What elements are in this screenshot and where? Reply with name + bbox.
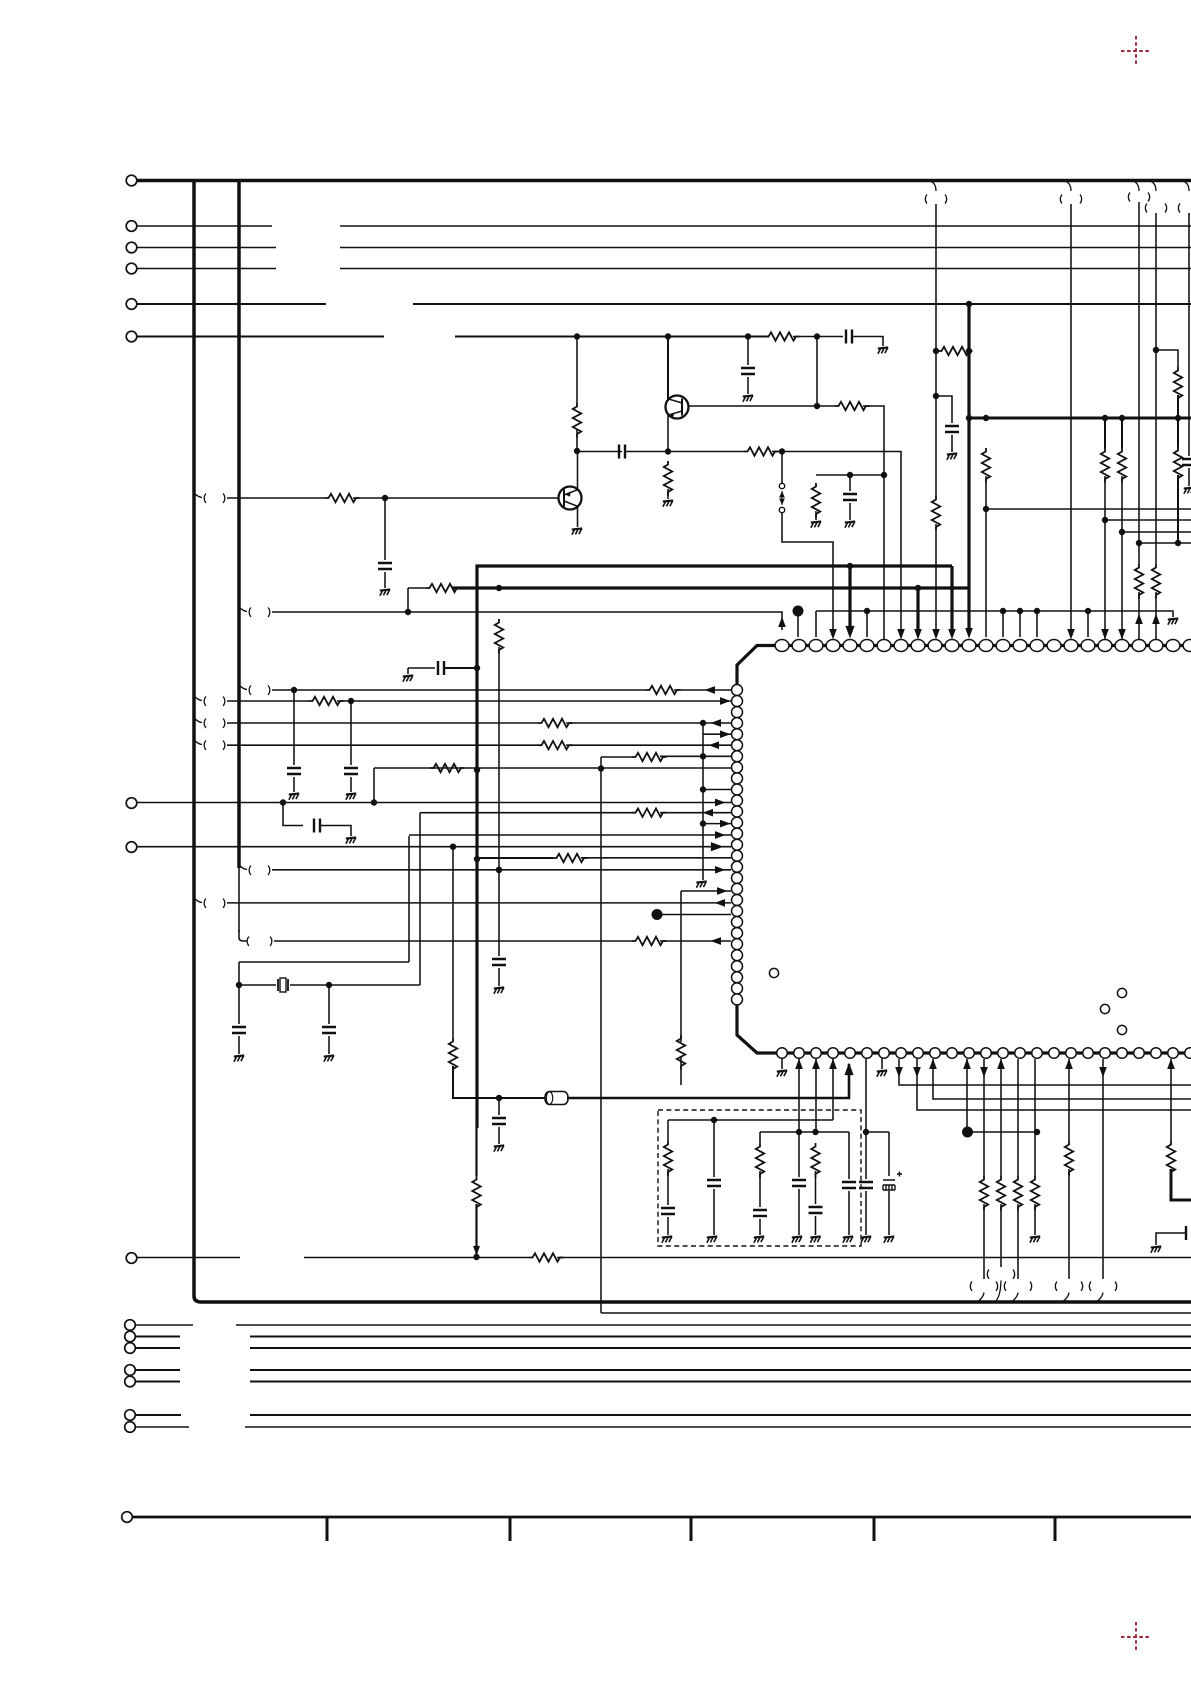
node box b2	[796, 1129, 801, 1134]
resistor R7	[664, 461, 672, 496]
connector P1	[779, 483, 785, 512]
wire b24 thick	[1171, 1169, 1191, 1200]
resistor R4	[812, 483, 820, 518]
arrow pin b24	[1168, 1060, 1174, 1069]
resistor R30	[472, 1176, 480, 1211]
wire X1 drop b	[935, 351, 937, 396]
wire bus 2 right	[340, 225, 1191, 227]
wire X1 drop a	[935, 204, 937, 351]
wire L2 b	[337, 700, 731, 702]
arrow pin20 in	[1102, 630, 1108, 639]
pad T4	[1117, 1025, 1126, 1034]
wire xtal b	[290, 984, 420, 986]
IC U1 bottom pin row	[777, 1048, 1191, 1059]
node b16 join	[1034, 1129, 1039, 1134]
node L8 rail	[598, 766, 603, 771]
ground C25	[1151, 1246, 1161, 1252]
ferrite bead FB1	[545, 1092, 568, 1105]
wire C25 link	[1156, 1226, 1186, 1245]
crystal X1	[278, 978, 288, 992]
node rail2 pin9	[915, 585, 920, 590]
wire net1258 c	[557, 1257, 1191, 1259]
terminal J9	[126, 1253, 137, 1264]
wire C4 drop	[849, 475, 851, 491]
wire L23 a	[274, 940, 632, 942]
resistor R23	[632, 753, 667, 761]
wire C2 drop	[747, 337, 749, 366]
connector hook net OSC	[239, 607, 270, 617]
ground C12	[346, 793, 356, 799]
wire rail V2 left stub	[408, 588, 426, 611]
capacitor C8	[438, 661, 444, 675]
wire b18 down	[1068, 1169, 1070, 1279]
wire X1 drop d	[935, 524, 937, 630]
node L11 b	[371, 800, 376, 805]
wire riser453	[452, 847, 454, 1038]
wire R17-R18	[1177, 395, 1179, 447]
resistor R17	[1174, 367, 1182, 402]
wire L13	[703, 823, 731, 825]
wire pin b4	[832, 1059, 834, 1120]
node A	[574, 448, 579, 453]
wire L17	[272, 869, 731, 871]
ground R4	[811, 521, 821, 527]
arrow pin1 out	[779, 618, 785, 627]
arrow pin b8	[896, 1068, 902, 1077]
connector hook net RXIN	[194, 493, 225, 503]
connector hook B5	[1089, 1282, 1116, 1302]
resistor R14	[1118, 448, 1126, 483]
resistor R1	[573, 403, 581, 438]
arrow pin L13	[721, 821, 730, 827]
wire gnd column	[702, 734, 704, 880]
wire L19	[681, 890, 731, 892]
capacitor C22	[842, 1182, 856, 1188]
connector page X1	[925, 181, 946, 204]
wire RXIN b	[353, 497, 559, 499]
arrow pin L6	[710, 742, 719, 748]
wire supply drop	[967, 304, 970, 628]
wire L1 cap drop	[293, 690, 295, 765]
wire baseline	[133, 1516, 1191, 1519]
capacitor C14	[232, 1027, 246, 1033]
wire C12 gnd	[350, 777, 352, 792]
node xtal right	[326, 982, 331, 987]
ground C14	[234, 1055, 244, 1061]
node row611 p6	[864, 608, 869, 613]
terminal K3	[125, 1343, 136, 1354]
wire base row	[817, 405, 835, 407]
arrow pin11 in	[949, 630, 955, 639]
capacitor C18	[809, 1207, 823, 1213]
wire pin b18	[1068, 1059, 1070, 1141]
wire row452 d	[772, 451, 782, 453]
wire b3 r-c	[815, 1171, 817, 1204]
resistor R3	[835, 402, 870, 410]
transistor Q1	[666, 396, 689, 419]
ground C3	[878, 347, 888, 353]
capacitor C24 electrolytic	[883, 1172, 902, 1191]
resistor R31	[811, 1143, 819, 1178]
resistor R26	[553, 854, 588, 862]
wire C9 link	[936, 396, 952, 423]
ground pin b7	[877, 1070, 887, 1076]
wire R1 to node	[576, 430, 578, 451]
arrow pin21 in	[1119, 630, 1125, 639]
node box b3	[813, 1129, 818, 1134]
arrow pin5 bottom	[845, 1064, 853, 1075]
wire L2 a	[227, 700, 309, 702]
capacitor C25 plate	[1185, 1226, 1187, 1240]
wire pin b7 stub	[881, 1058, 883, 1069]
wire pin b6	[865, 1059, 867, 1179]
wire pin11 thick drop	[950, 566, 953, 630]
wire busL2 a	[136, 1336, 180, 1338]
connector page X2	[1060, 181, 1081, 204]
ground C13	[346, 837, 356, 843]
wire C16 drop	[498, 1098, 500, 1115]
wire C16 gnd	[498, 1127, 500, 1144]
wire C7 gnd	[498, 968, 500, 986]
arrow pin8 in	[898, 630, 904, 639]
wire bus 6 left	[137, 336, 384, 338]
resistor R28	[632, 937, 667, 945]
node rail V2 tap R9	[496, 585, 501, 590]
wire top supply bus	[137, 179, 1191, 183]
wire C14 drop	[238, 985, 240, 1024]
node bus6-C2	[745, 334, 750, 339]
ground pin b1	[777, 1070, 787, 1076]
wire b4 c	[713, 1120, 715, 1177]
arrow pin L20	[716, 900, 725, 906]
wire bus B thin continuation	[238, 866, 240, 932]
node supply tap	[966, 348, 971, 353]
wire busL1 a	[136, 1324, 193, 1326]
capacitor C9	[945, 426, 959, 432]
node 418 r17	[1175, 415, 1180, 420]
wire pin b10	[933, 1059, 1191, 1099]
node 418 p20	[1102, 415, 1107, 420]
wire box top	[668, 1119, 833, 1121]
wire row452 c	[668, 451, 744, 453]
wire L6 a	[227, 744, 538, 746]
wire bus 3 right	[340, 247, 1191, 249]
wire pin b15	[1017, 1059, 1019, 1176]
resistor R25	[632, 809, 667, 817]
capacitor C19	[707, 1180, 721, 1186]
connector hook B2	[987, 1270, 1014, 1302]
wire thick rail V1 lower	[475, 1126, 477, 1255]
wire busL4 b	[250, 1369, 1191, 1371]
wire C8 stub	[407, 668, 409, 674]
node row611 p14	[1000, 608, 1005, 613]
tick mark 5	[1054, 1517, 1057, 1541]
wire p21 b	[1121, 476, 1123, 640]
resistor R32	[664, 1141, 672, 1176]
node 418 p13	[983, 415, 988, 420]
terminal J5	[126, 299, 137, 310]
arrow pin b20	[1100, 1068, 1106, 1077]
wire to C3	[817, 336, 843, 338]
wire bus 2 left	[137, 225, 272, 227]
wire busL6 b	[250, 1414, 1191, 1416]
resistor R8	[426, 584, 461, 592]
wire Q1 base	[689, 405, 817, 407]
terminal J8	[126, 842, 137, 853]
wire L7 b	[660, 755, 731, 757]
wire busL5 b	[250, 1381, 1191, 1383]
arrow pin b18	[1066, 1060, 1072, 1069]
wire busL7 b	[245, 1426, 1191, 1428]
wire pin b1 stub	[781, 1058, 783, 1069]
arrow pin18 in	[1068, 630, 1074, 639]
wire C20 gnd	[667, 1217, 669, 1235]
capacitor C7	[492, 959, 506, 965]
registration mark top-right	[1121, 36, 1151, 66]
capacitor C15	[322, 1027, 336, 1033]
connector page X4	[1145, 181, 1166, 213]
node L15	[450, 844, 455, 849]
capacitor C5	[378, 563, 392, 569]
node RXIN	[382, 495, 387, 500]
wire row520	[1105, 519, 1191, 521]
wire C21 gnd	[759, 1219, 761, 1235]
resistor R36	[1014, 1176, 1022, 1211]
wire b6 branch v	[888, 1132, 890, 1176]
wire row509	[986, 508, 1191, 510]
resistor R39	[1167, 1141, 1175, 1176]
wire b13 down	[983, 1204, 985, 1279]
wire R10 to bus	[966, 350, 969, 352]
wire L2 cap drop	[350, 701, 352, 765]
arrow pin22 out	[1136, 615, 1142, 624]
terminal J3	[126, 242, 137, 253]
arrow pin L5	[721, 731, 730, 737]
node X1 r	[933, 348, 938, 353]
wire C5 drop	[384, 498, 386, 560]
arrow pin4 in	[830, 630, 836, 639]
wire thick rail V2	[452, 586, 969, 589]
wire busL4 a	[136, 1369, 180, 1371]
node bus6-right	[814, 334, 819, 339]
wire C5 gnd	[384, 572, 386, 588]
node rail V1 tap3	[474, 856, 479, 861]
resistor R29	[449, 1038, 457, 1073]
node row452 Q1e	[665, 449, 670, 454]
ground C8	[403, 675, 413, 681]
arrow pin L1	[706, 687, 715, 693]
wire p23 b	[1155, 592, 1157, 639]
wire riser409	[408, 836, 410, 962]
node L21 big	[652, 910, 662, 920]
wire thick vertical bus B	[237, 181, 241, 869]
node box b4	[711, 1117, 716, 1122]
wire L6 b	[566, 744, 731, 746]
wire pin b8	[899, 1059, 1191, 1085]
wire b14 down	[1000, 1204, 1002, 1267]
wire p20 b	[1104, 476, 1106, 640]
node p20 row	[1102, 517, 1107, 522]
node black net marker	[793, 606, 803, 616]
arrow pin L17	[716, 867, 725, 873]
wire R17 link	[1156, 350, 1178, 367]
node rail V1 tap1	[474, 665, 479, 670]
wire node to base row	[816, 337, 818, 407]
wire riser681 b	[680, 1056, 682, 1085]
ground C16	[494, 1145, 504, 1151]
wire busL7 a	[136, 1426, 189, 1428]
wire Q2 emitter	[577, 506, 579, 527]
node L13	[700, 821, 705, 826]
ground R7	[663, 500, 673, 506]
wire pin b14	[1000, 1059, 1002, 1176]
arrow pin L19	[718, 888, 727, 894]
node row611 p15	[1017, 608, 1022, 613]
capacitor C23	[859, 1182, 873, 1188]
arrow pin b13	[981, 1068, 987, 1077]
node bead tap	[496, 1095, 501, 1100]
wire bus 4 left	[137, 268, 276, 270]
wire R9 down2	[498, 870, 500, 956]
capacitor C12	[344, 768, 358, 774]
ground C4	[845, 521, 855, 527]
wire pin5 thick drop	[848, 566, 851, 628]
wire pin b12	[966, 1059, 968, 1128]
registration mark bottom-right	[1121, 1622, 1151, 1652]
ground C15	[324, 1055, 334, 1061]
wire p13 drop	[985, 476, 987, 637]
wire C4 gnd	[849, 503, 851, 520]
resistor R34	[980, 1176, 988, 1211]
wire thick rail V1	[477, 566, 952, 1128]
arrow pin L15	[711, 843, 722, 851]
wire L1 b	[294, 689, 646, 691]
ground C18	[810, 1236, 820, 1242]
wire pin b24	[1170, 1059, 1172, 1141]
wire X4 drop	[1155, 213, 1157, 564]
node bus6-Q1	[665, 334, 670, 339]
wire L12 b	[660, 812, 731, 814]
resistor R35	[997, 1176, 1005, 1211]
ground C10	[1184, 487, 1191, 493]
arrow pin L14	[716, 832, 725, 838]
ground C2	[743, 395, 753, 401]
node X4 tap	[1153, 347, 1158, 352]
wire L11	[137, 802, 731, 804]
wire L5 v	[702, 723, 704, 734]
wire pin15 stub	[1019, 611, 1021, 637]
wire R4 gnd	[815, 511, 817, 520]
wire L20	[227, 902, 731, 904]
node L2	[348, 698, 353, 703]
transistor Q2	[559, 487, 582, 510]
node 418 p21	[1119, 415, 1124, 420]
arrow pin L11	[716, 799, 725, 805]
wire pin b16	[1034, 1059, 1036, 1176]
node p13 row	[983, 506, 988, 511]
wire C15 drop	[328, 985, 330, 1024]
terminal K4	[125, 1365, 136, 1376]
terminal J1	[126, 175, 137, 186]
IC U1 body outline	[737, 646, 1191, 1054]
arrow pin b12	[964, 1060, 970, 1069]
wire L23 corner	[239, 930, 247, 941]
wire C9 gnd	[951, 435, 953, 452]
wire xtal a	[239, 984, 276, 986]
resistor R27	[677, 1035, 685, 1070]
tick mark 1	[326, 1517, 329, 1541]
wire Q1 collector	[667, 337, 669, 401]
wire busL1 b	[236, 1324, 1191, 1326]
wire row532	[1122, 531, 1191, 533]
resistor R22	[538, 741, 573, 749]
wire p20 a	[1104, 418, 1106, 448]
wire L4 b	[566, 722, 731, 724]
wire L1 c	[674, 689, 731, 691]
resistor R40	[529, 1253, 564, 1261]
connector hook L4	[194, 718, 225, 728]
wire L4 a	[227, 722, 538, 724]
ground Q2 emitter	[572, 528, 582, 534]
wire C8 b	[444, 667, 477, 669]
ground C7	[494, 987, 504, 993]
arrow pin L12	[704, 810, 713, 816]
wire RC row	[816, 474, 884, 476]
wire row452 a	[577, 451, 622, 453]
ground row611	[1168, 618, 1178, 624]
resistor R10	[938, 347, 973, 355]
resistor R16	[1152, 564, 1160, 599]
wire L15	[137, 846, 731, 848]
node y870	[496, 867, 501, 872]
resistor R5	[325, 494, 360, 502]
connector page X3	[1128, 181, 1149, 202]
wire collector drop Q2	[576, 337, 578, 405]
dashed enclosure	[658, 1110, 861, 1246]
wire riser420	[419, 813, 421, 985]
arrow pin b10	[930, 1060, 936, 1069]
capacitor C16	[492, 1118, 506, 1124]
wire C14 gnd	[238, 1036, 240, 1054]
resistor R18	[1174, 447, 1182, 482]
tick mark 3	[690, 1517, 693, 1541]
node row543 r	[1175, 540, 1180, 545]
wire C22 gnd	[848, 1191, 850, 1235]
resistor R2	[765, 332, 800, 340]
wire L23 b	[660, 940, 731, 942]
wire X2 drop	[1070, 204, 1072, 630]
capacitor C11	[287, 768, 301, 774]
node L10	[700, 787, 705, 792]
resistor R12	[982, 448, 990, 483]
terminal J10	[122, 1512, 133, 1523]
arrow pin L4	[712, 720, 721, 726]
wire bus 5 right	[413, 303, 1191, 305]
wire b-left r-c	[667, 1169, 669, 1205]
terminal K7	[125, 1422, 136, 1433]
arrow pin9 in	[915, 630, 921, 639]
arrow pin5 in	[846, 626, 854, 637]
wire453 corner	[453, 1066, 549, 1098]
node L1	[291, 687, 296, 692]
wire C8 a	[408, 667, 435, 669]
wire conn drop	[781, 452, 783, 484]
terminal J6	[126, 331, 137, 342]
wire riser601 corner	[601, 1312, 1191, 1314]
wire row543	[1139, 542, 1191, 544]
wire b16 down	[1034, 1204, 1036, 1235]
capacitor C20	[661, 1208, 675, 1214]
